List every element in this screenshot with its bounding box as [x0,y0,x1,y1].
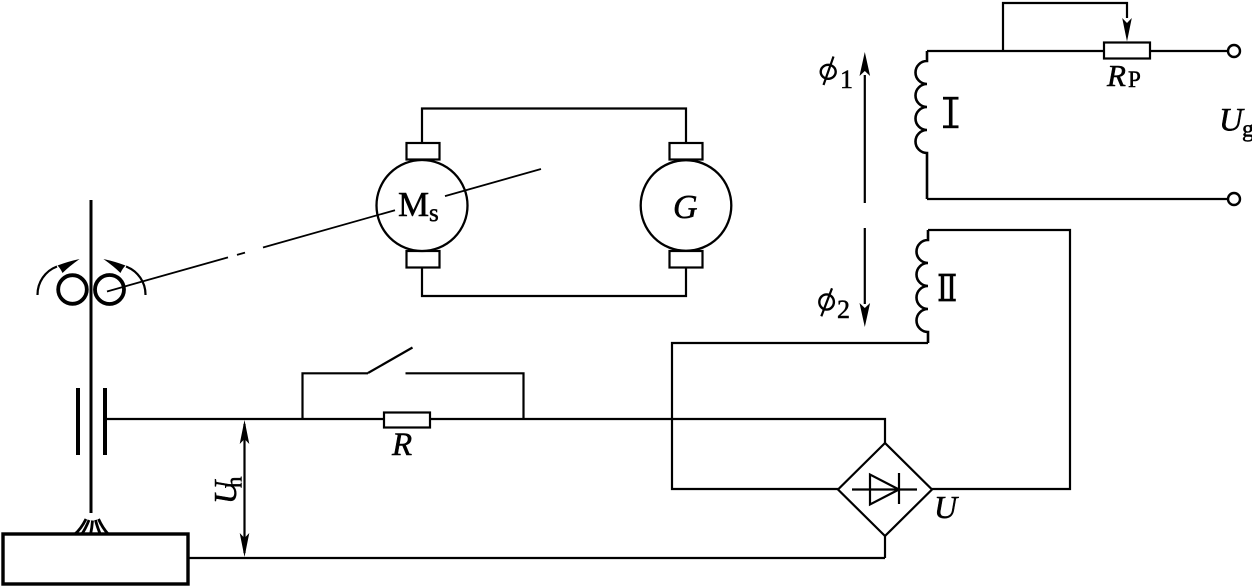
contact tube bar left [76,388,80,455]
svg-text:M: M [398,185,429,224]
mechanical link (dash-dot shaft) from roller to motor Ms [107,169,541,292]
flux arrow phi2 (down) [864,228,866,304]
coil II bottom wire to bridge left [672,343,928,489]
label phi2 [819,294,834,309]
terminal Ug top [1228,45,1240,57]
bridge bottom stub [884,536,886,558]
flux arrow phi1 (up) [864,75,866,203]
RP wiper bracket [1003,3,1127,51]
svg-text:U: U [934,489,959,525]
rotation arrow right [126,267,146,296]
svg-text:G: G [673,189,698,226]
bridge rectifier U diamond [838,443,932,536]
resistor R [384,413,430,428]
generator G brush top [670,143,703,160]
RP wiper arrowhead [1122,18,1132,42]
coil II top wire to right bus [928,230,1070,489]
svg-text:g: g [1242,117,1252,143]
coil I bottom wire [927,198,1228,200]
contact tube bar right [103,388,107,455]
generator G brush bottom [670,251,703,268]
diode inside bridge [852,488,917,490]
svg-text:h: h [222,476,247,488]
switch S bypass loop [303,373,369,419]
wire electrode (vertical filler wire) [90,200,93,513]
welding arc [75,519,87,535]
dimension arrow Uh [243,424,245,553]
rotation arrow left [37,267,57,296]
coil I top wire to RP [927,50,1104,52]
generator G circle [641,160,732,251]
motor Ms circle [377,160,468,251]
svg-text:1: 1 [840,65,853,94]
label I (roman numeral) [943,98,959,127]
coil II [917,230,928,343]
wire RP to terminal [1150,50,1228,52]
terminal Ug bottom [1228,193,1240,205]
svg-text:2: 2 [837,295,850,324]
svg-text:R: R [1106,58,1126,93]
coil I [916,51,928,199]
wire: workpiece to bridge bottom [188,557,885,559]
wire: contact tube to bridge top (main feedback wire) [106,419,885,443]
motor Ms brush bottom [407,251,440,268]
motor Ms top wire [422,109,686,144]
motor Ms bottom wire [422,268,686,297]
svg-text:s: s [429,200,439,227]
motor Ms brush top [407,143,440,160]
label phi1 [821,65,836,79]
workpiece [3,534,188,584]
svg-text:P: P [1128,67,1141,92]
feed roller right [95,275,124,304]
potentiometer RP body [1104,43,1150,59]
svg-text:R: R [391,427,412,463]
label II (roman numeral) [939,275,956,300]
feed roller left [58,275,87,304]
